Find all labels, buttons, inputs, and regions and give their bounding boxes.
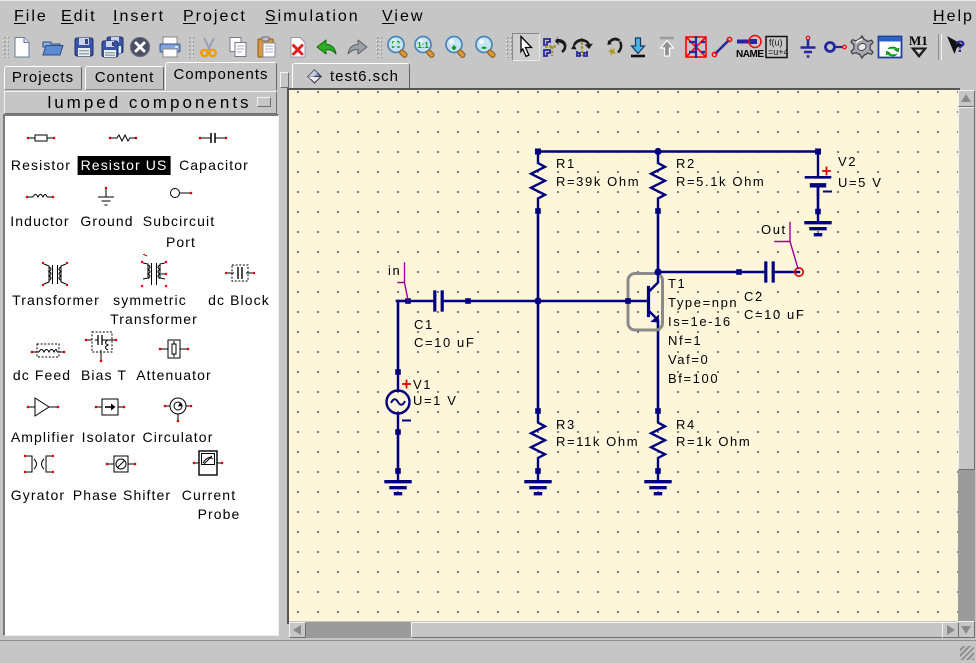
transistor T1 (npn) [628,273,659,323]
component list icons (row 3) [38,259,72,289]
label R1 name [556,155,576,173]
splitter handle [280,72,289,88]
component list labels (row 6) [11,487,65,503]
combo box [4,91,277,114]
wire: R1 bottom to base node [537,211,540,301]
node label in: flag line [398,263,408,300]
label T1 Vaf [668,351,709,369]
component list labels (row 5) [11,429,75,445]
horizontal scrollbar [289,622,958,638]
node label Out text [761,221,787,239]
wire: base node to R3 top [537,301,540,411]
toolbar icons: schematic tools group [512,33,540,61]
label T1 Bf [668,370,719,388]
wire: V1 minus to ground [397,432,400,471]
node label in text [388,262,401,280]
wire end squares [395,149,821,474]
label V1 value [413,392,458,410]
status bar [0,640,976,663]
voltage source V1 [387,372,411,432]
component list icons (row 1) [26,133,56,143]
component list labels (row 3) [12,292,100,308]
document tab [292,63,410,88]
toolbar icons: file group [8,34,36,60]
ground under R3 [526,471,550,494]
resistor R1 [531,152,545,212]
label T1 Type [668,294,738,312]
vertical scrollbar [958,90,975,638]
node: junction at base / R1-R3 [534,297,541,304]
node: junction at R2 top [654,148,661,155]
label V2 value [838,174,883,192]
node label Out: flag line [775,223,798,269]
V1 plus mark [403,381,410,388]
label R3 value [556,433,639,451]
component list icons (row 5) [26,396,60,419]
white list area [3,114,279,636]
component list icons (row 6) [22,452,56,476]
V2 plus mark [823,168,830,175]
label R4 value [676,433,751,451]
label T1 Nf [668,332,702,350]
resistor R3 [531,411,545,471]
wire: input corner vertical (in node to V1 plus) [397,301,400,372]
wire: top rail right (R2 top to V2 top) [658,150,818,153]
component list icons (row 2) [25,190,55,200]
wire: C1 right to T1 base [468,300,628,303]
ground under R4 [646,471,670,494]
label R3 name [556,416,576,434]
wire: top rail left (R1 top to R2 top) [538,150,658,153]
capacitor C2 [739,263,799,281]
label C1 value [414,334,475,352]
component list labels (row 1) [11,157,71,173]
component list labels (row 2) [10,213,69,229]
component list labels (row 4) [13,367,71,383]
T1 selection box [628,274,663,331]
label C1 name [414,316,434,334]
wire: emitter to R4 top [657,322,660,411]
label C2 name [744,288,764,306]
schematic sheet with dot grid [289,90,958,621]
toolbar icons: zoom group [384,34,412,60]
node: junction at collector [654,268,661,275]
label T1 Is [668,313,732,331]
voltage source V2 (battery) [806,152,831,200]
node Out: open terminal circle [795,268,803,276]
ground under V1 [386,471,410,494]
resistor R4 [651,411,665,471]
component list icons (row 4) [30,340,66,359]
ground under V2 [806,212,830,235]
label R2 value [676,173,765,191]
label R1 value [556,173,640,191]
wire: collector node to C2 left [658,271,739,274]
label R2 name [676,155,696,173]
resistor R2 [651,152,665,212]
label C2 value [744,306,805,324]
label V1 name [413,376,432,394]
label T1 name [668,275,686,293]
label R4 name [676,416,696,434]
toolbar icons: edit group [195,34,223,60]
wire: R2 bottom to collector node [657,211,660,272]
capacitor C1 [408,292,468,310]
wire: V2 minus to ground [817,188,820,212]
wire: input corner horizontal (in node to C1 left) [397,300,408,303]
label V2 name [838,153,857,171]
